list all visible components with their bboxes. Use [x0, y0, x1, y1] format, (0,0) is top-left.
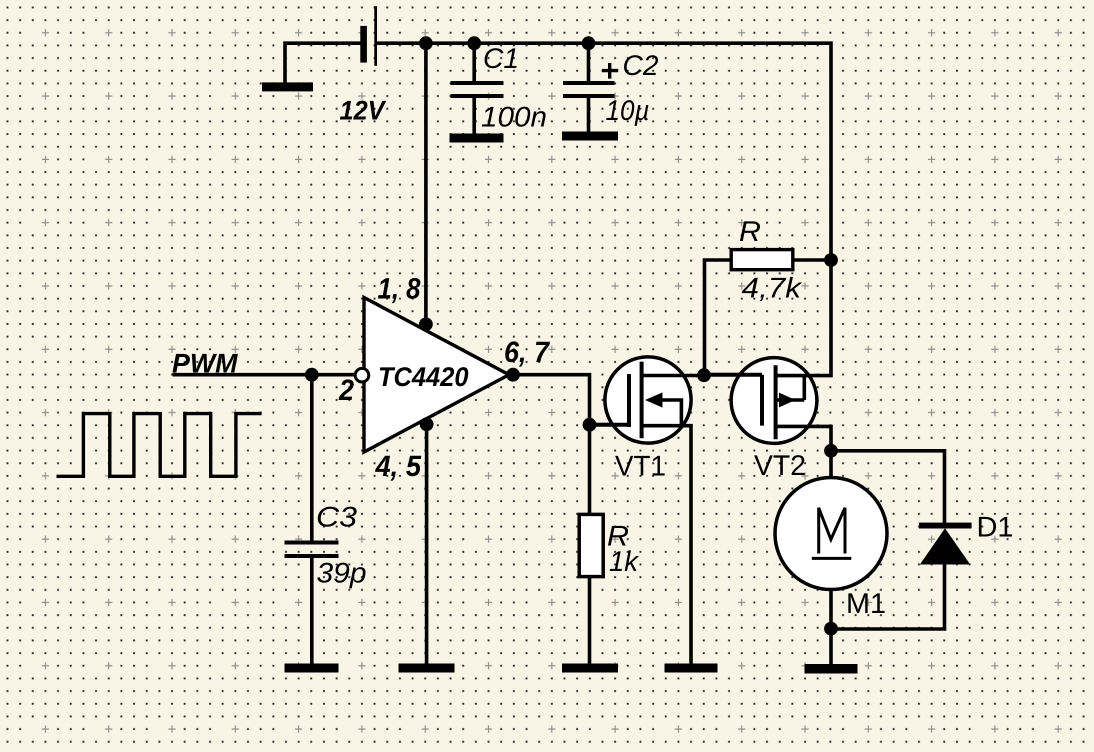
svg-text:12V: 12V — [340, 96, 387, 126]
square wave signal — [57, 414, 262, 477]
junction node: pins 4,5 at triangle — [420, 417, 434, 431]
ground (pins 4,5) — [399, 664, 455, 673]
wire: R 4,7k right lead — [795, 258, 832, 262]
label VT1 — [615, 450, 666, 482]
label pin 6, 7 — [504, 336, 550, 369]
label pin 4, 5 — [375, 450, 422, 483]
wire: TC4420 pins 4,5 to ground — [425, 418, 429, 664]
junction node: pins 1,8 at triangle — [419, 317, 433, 331]
wire: rail drop to TC4420 pins 1,8 — [424, 43, 428, 330]
label M1 — [846, 588, 886, 620]
svg-text:4, 5: 4, 5 — [375, 450, 422, 483]
label R (4,7k) — [739, 216, 761, 248]
wire: PWM input — [173, 373, 357, 377]
svg-text:VT2: VT2 — [754, 450, 806, 482]
label 12V — [340, 96, 387, 126]
svg-text:PWM: PWM — [172, 349, 238, 379]
C2 polarity plus — [602, 63, 618, 79]
label TC4420 — [378, 362, 469, 392]
capacitor C3 plates — [285, 541, 339, 559]
svg-text:VT1: VT1 — [615, 450, 666, 482]
svg-text:C2: C2 — [623, 50, 659, 82]
input pin circle (pin 2) — [355, 368, 369, 382]
junction node: rail / C1 — [467, 36, 481, 50]
wire: C2 branch — [587, 43, 591, 132]
ground (C2) — [562, 132, 618, 141]
label D1 — [977, 512, 1014, 544]
diode D1 — [919, 523, 972, 565]
junction node: driver output — [506, 368, 520, 382]
ground (C3) — [285, 664, 339, 673]
motor M1 — [775, 478, 887, 590]
ground (C1) — [450, 134, 504, 143]
label C3 — [316, 502, 357, 534]
wire: node to VT2 gate — [705, 373, 762, 377]
transistor VT2 (p-channel MOSFET) — [705, 258, 832, 452]
junction node: PWM / C3 — [305, 368, 319, 382]
svg-text:R: R — [739, 216, 761, 248]
wire: motor bottom to ground — [829, 590, 833, 664]
svg-text:1k: 1k — [609, 546, 640, 578]
wire: driver output to VT1 gate and R 1k — [509, 373, 627, 664]
label 1k — [609, 546, 640, 578]
resistor R 1k body — [579, 514, 603, 576]
svg-text:6, 7: 6, 7 — [504, 336, 550, 369]
svg-text:D1: D1 — [977, 512, 1014, 544]
ground (M1) — [805, 664, 858, 674]
wire: +12V rail from battery to right corner, down to resistor node — [377, 43, 831, 260]
svg-text:M1: M1 — [846, 588, 886, 620]
capacitor C2 plates — [563, 81, 615, 98]
label 100n — [481, 102, 547, 134]
label pin 2 — [338, 374, 354, 407]
wire: C3 branch down from PWM node — [310, 375, 314, 664]
ground (R 1k) — [562, 664, 618, 673]
wire: diode bottom branch — [831, 564, 946, 629]
label pin 1, 8 — [378, 272, 422, 305]
label PWM — [172, 349, 238, 379]
ground (VT1 source) — [665, 664, 718, 673]
svg-text:2: 2 — [338, 374, 354, 407]
label C2 — [623, 50, 659, 82]
svg-text:TC4420: TC4420 — [378, 362, 469, 392]
svg-text:1, 8: 1, 8 — [378, 272, 422, 305]
battery B1 12V — [360, 6, 377, 66]
wire: freewheel diode top branch — [831, 449, 945, 523]
transistor VT1 (n-channel MOSFET) — [590, 357, 705, 664]
junction node: rail / pins 1,8 — [419, 36, 433, 50]
label 4,7k — [742, 273, 803, 305]
svg-text:39p: 39p — [317, 558, 367, 590]
driver U1 TC4420 triangle — [364, 298, 509, 453]
wire: drain node up to R 4,7k — [703, 260, 730, 377]
capacitor C1 plates — [451, 81, 504, 98]
wire: C1 branch — [472, 43, 476, 134]
wire: VT2 source to motor — [829, 451, 833, 478]
junction node: motor / diode bottom — [824, 622, 838, 636]
junction node: VT1 drain / R / VT2 gate — [697, 368, 711, 382]
svg-text:100n: 100n — [481, 102, 547, 134]
junction node: VT1 gate / R 1k — [583, 418, 597, 432]
label C1 — [483, 43, 519, 75]
resistor R 4,7k body — [731, 250, 793, 270]
label VT2 — [754, 450, 806, 482]
junction node: rail / C2 — [582, 36, 596, 50]
wire: battery negative lead from ground up to battery — [285, 41, 361, 82]
junction node: R 4,7k / rail — [824, 253, 838, 267]
junction node: VT2 source / diode — [824, 444, 838, 458]
label R (1k) — [607, 521, 629, 553]
svg-text:4,7k: 4,7k — [742, 273, 803, 305]
svg-text:10µ: 10µ — [606, 95, 650, 127]
ground (battery) — [262, 82, 313, 91]
svg-text:C3: C3 — [316, 502, 357, 534]
label 39p — [317, 558, 367, 590]
label 10u — [606, 95, 650, 127]
svg-text:C1: C1 — [483, 43, 519, 75]
